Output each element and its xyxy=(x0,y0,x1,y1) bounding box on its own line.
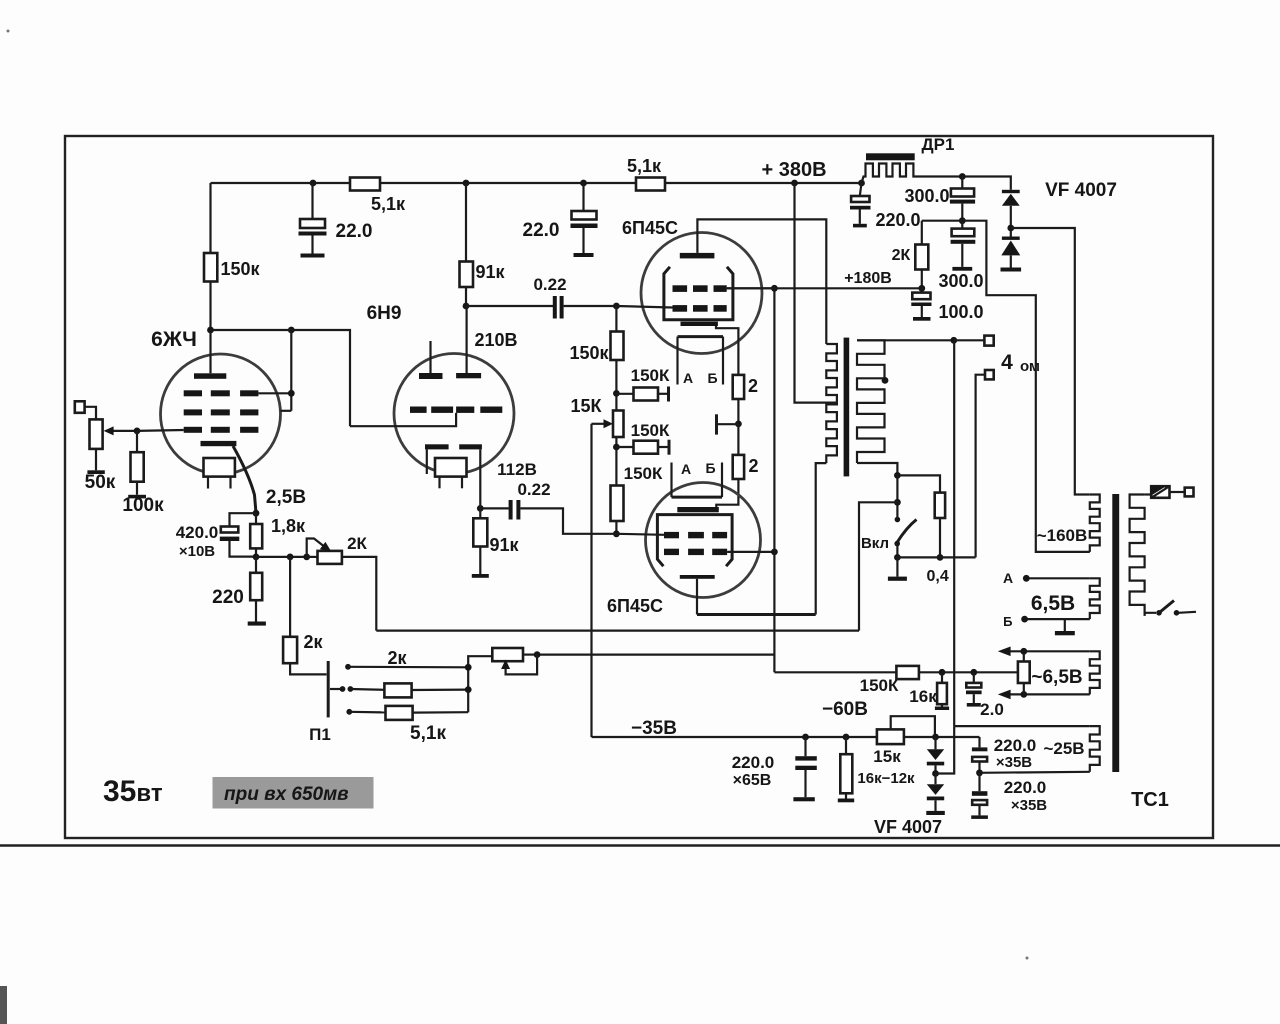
resistor 2k (vertical, feedback leg) xyxy=(289,557,291,637)
svg-text:−60В: −60В xyxy=(822,699,868,720)
svg-text:420.0: 420.0 xyxy=(176,523,219,542)
node 0.4 bottom xyxy=(937,554,944,561)
node 2.0 cap xyxy=(970,669,977,676)
wire B+ rail left segment xyxy=(211,182,351,184)
wire B+ rail middle segment xyxy=(380,182,636,184)
potentiometer 2k (feedback trimmer) xyxy=(492,648,523,661)
speaker terminal upper xyxy=(984,336,993,346)
diode VD2 VF4007 xyxy=(1002,237,1020,240)
capacitor 300.0 (second filter) xyxy=(961,221,963,229)
wiper of 2k trimmer xyxy=(307,539,326,557)
tube V3 cathode xyxy=(681,322,718,326)
svg-text:6ЖЧ: 6ЖЧ xyxy=(151,328,197,351)
wire bias winding top lead xyxy=(954,725,1090,727)
tube V4 control grid xyxy=(664,532,679,538)
capacitor 22.0 (second decoupling electrolytic) xyxy=(582,183,584,211)
resistor 150k (bias divider bottom) xyxy=(611,486,624,522)
wire 6N9 cathode to 0.22 cap 2 xyxy=(480,507,509,509)
transformer OPT core xyxy=(844,338,850,477)
svg-text:35вт: 35вт xyxy=(103,775,163,808)
wire anode lead xyxy=(209,330,211,373)
transformer TC1 primary winding xyxy=(1130,495,1145,616)
wire input to volume pot xyxy=(85,407,96,420)
svg-text:2.0: 2.0 xyxy=(980,700,1004,719)
wire 0.22 to lower grid node xyxy=(520,508,616,533)
svg-text:0.22: 0.22 xyxy=(517,480,550,499)
svg-text:2,5В: 2,5В xyxy=(266,487,306,508)
svg-text:220.0: 220.0 xyxy=(732,753,775,772)
svg-text:ТС1: ТС1 xyxy=(1131,789,1169,811)
node trimmer right xyxy=(534,651,541,658)
tube V3 control grid xyxy=(673,305,688,312)
transformer OPT primary winding xyxy=(826,344,837,463)
diode VD3 VF4007 xyxy=(934,737,936,749)
wire divider xyxy=(615,360,617,411)
node 16k fb xyxy=(939,669,946,676)
tube V1 cathode xyxy=(201,441,237,446)
switch P1 rotor xyxy=(327,661,330,717)
bias test terminal xyxy=(715,414,718,434)
svg-text:~6,5В: ~6,5В xyxy=(1031,667,1082,688)
wire V1 plate to V2 grid xyxy=(291,330,350,426)
transformer TC1 core xyxy=(1112,494,1119,772)
resistor 0.4 xyxy=(935,493,945,518)
node between diodes xyxy=(932,770,939,777)
node 6N9 plate / 210V xyxy=(463,303,470,310)
node cathodyne output xyxy=(477,505,484,512)
svg-text:112В: 112В xyxy=(497,460,537,479)
tube V2 6N9 envelope xyxy=(394,354,514,474)
node diode chain top xyxy=(932,734,939,741)
tube V2 grid row xyxy=(410,407,427,413)
terminal B xyxy=(1021,616,1028,623)
potentiometer wiper arrow into 15k from feedback line xyxy=(592,423,608,425)
border frame xyxy=(65,136,1213,838)
node switch output xyxy=(894,554,901,561)
node secondary tap xyxy=(882,377,889,384)
node screens feed lower xyxy=(771,549,778,556)
wire bias winding bottom lead xyxy=(980,772,1090,773)
wire screen feed vertical xyxy=(773,288,775,672)
svg-text:×35В: ×35В xyxy=(1011,797,1047,814)
svg-text:150к: 150к xyxy=(220,259,260,279)
potentiometer 50k volume xyxy=(90,419,103,449)
svg-text:300.0: 300.0 xyxy=(938,271,983,291)
resistor 220 xyxy=(255,557,257,573)
inductor DR1 winding xyxy=(862,164,920,184)
node pot bottom xyxy=(1020,691,1027,698)
svg-text:6,5В: 6,5В xyxy=(1031,592,1075,615)
wire V3 cathode lead xyxy=(716,326,738,375)
tube V2 heater xyxy=(435,458,467,477)
wire filter mid to 160V winding bottom xyxy=(962,221,1090,552)
wire grid A entry xyxy=(616,306,672,308)
wire -35V rail right xyxy=(904,736,980,738)
resistor 100k grid leak xyxy=(136,431,138,452)
wiper of feedback trimmer xyxy=(506,655,537,675)
capacitor 220.0 (PSU input) xyxy=(860,183,862,196)
speaker terminal lower xyxy=(985,370,994,379)
node screen junction xyxy=(288,390,295,397)
wire +180V xyxy=(727,287,922,289)
svg-text:91к: 91к xyxy=(475,262,505,282)
wire rail corner down to 150k xyxy=(209,183,211,253)
ground below switch xyxy=(896,557,898,576)
svg-text:~25В: ~25В xyxy=(1043,739,1084,758)
tube V3 anode xyxy=(680,253,715,259)
resistor 150k (bias divider top) xyxy=(611,332,624,361)
wire 91k to plate node xyxy=(465,287,467,306)
node 220/65V cap xyxy=(802,734,809,741)
capacitor 2.0 xyxy=(973,672,975,683)
wire primary top xyxy=(1145,493,1152,495)
svg-text:Б: Б xyxy=(707,370,717,386)
svg-text:ДР1: ДР1 xyxy=(922,135,955,154)
diode VD1 VF4007 xyxy=(1009,177,1012,190)
node pot top xyxy=(1020,648,1027,655)
terminal A xyxy=(1023,575,1030,582)
svg-text:220.0: 220.0 xyxy=(994,736,1037,755)
svg-text:22.0: 22.0 xyxy=(336,221,373,242)
node pot left xyxy=(303,554,310,561)
svg-text:15К: 15К xyxy=(570,396,602,416)
svg-text:5,1к: 5,1к xyxy=(371,194,406,214)
svg-text:100к: 100к xyxy=(122,495,164,516)
node P1 junction 2 xyxy=(465,686,472,693)
svg-text:6П45С: 6П45С xyxy=(607,596,663,616)
capacitor 420.0x10V bypass xyxy=(230,513,257,527)
wire 6.5V bottom lead xyxy=(1025,618,1090,620)
resistor 16k-12k xyxy=(845,737,847,754)
svg-text:22.0: 22.0 xyxy=(523,220,560,241)
tube V2 cathode left xyxy=(425,444,449,449)
transformer TC1 winding ~160V xyxy=(1090,495,1100,552)
svg-text:VF 4007: VF 4007 xyxy=(874,817,942,837)
resistor 16k feedback xyxy=(941,672,943,683)
svg-text:×10В: ×10В xyxy=(179,543,215,560)
tube V4 anode xyxy=(680,575,715,579)
wire bias feed vertical xyxy=(590,424,592,737)
resistor 5.1k (driver decoupling) xyxy=(636,178,665,191)
node junction rail/22.0 cap 2 xyxy=(580,180,587,187)
svg-text:0,4: 0,4 xyxy=(926,568,948,585)
wire to lower cathode xyxy=(716,479,738,507)
wire V2 grid jog xyxy=(350,413,456,426)
node P1 junction 1 xyxy=(465,664,472,671)
node junction rail/OPT center tap xyxy=(791,180,798,187)
resistor 15k (-35V dropper) xyxy=(877,729,904,744)
node P1 contact 3 xyxy=(346,709,352,715)
resistor 2k (P1 position 2) xyxy=(350,688,384,691)
wire V3 anode top-cap to OPT primary top xyxy=(697,219,826,344)
potentiometer hum balance xyxy=(1023,651,1025,661)
resistor 150k (grid leak A, horizontal) xyxy=(616,393,633,395)
diode VD4 VF4007 xyxy=(934,774,936,785)
wire V3 screen out xyxy=(727,287,775,289)
node to 2k lower xyxy=(287,554,294,561)
wire to terminal line xyxy=(897,556,975,558)
resistor 2 (lower cathode) xyxy=(737,424,739,455)
node +180V cap xyxy=(918,285,925,292)
wire speaker hot down to bias winding xyxy=(953,340,955,726)
ground on 6.5V lead xyxy=(1064,619,1066,631)
wire to 0.4 resistor xyxy=(897,475,940,492)
wire grid node down xyxy=(615,306,617,332)
wire g3 stub xyxy=(280,410,291,412)
input terminal xyxy=(75,401,85,413)
wire B+ rail to choke xyxy=(665,182,862,184)
tube V2 anode left xyxy=(419,373,443,379)
svg-text:150К: 150К xyxy=(860,676,899,695)
wire to switch xyxy=(896,475,898,519)
node filter mid xyxy=(959,217,966,224)
wire V1 cathode lead xyxy=(233,446,256,513)
svg-text:16к−12к: 16к−12к xyxy=(857,770,915,787)
svg-text:+ 380В: + 380В xyxy=(761,159,826,181)
wire cathode node right xyxy=(256,556,307,558)
wire rail after choke xyxy=(920,175,1011,177)
tube V4 beam plates xyxy=(657,515,732,567)
node screen feed junction xyxy=(288,327,295,334)
tube V1 6Zh4 envelope xyxy=(161,354,281,474)
svg-text:Б: Б xyxy=(705,460,715,476)
transformer TC1 winding ~6.5V xyxy=(1090,651,1100,694)
svg-text:16к: 16к xyxy=(909,687,937,706)
capacitor 22.0 (first decoupling electrolytic) xyxy=(311,183,313,219)
svg-text:2: 2 xyxy=(748,376,758,396)
tube V4 cathode xyxy=(677,507,719,512)
wire divider bottom xyxy=(615,521,617,534)
node P1 contact 1 xyxy=(345,664,351,670)
mains switch xyxy=(1145,613,1156,616)
svg-text:100.0: 100.0 xyxy=(938,302,983,322)
transformer TC1 winding 6.5V xyxy=(1090,578,1100,619)
node plate junction xyxy=(207,327,214,334)
wire diode tap to bias winding top xyxy=(936,726,955,773)
wire screen to dropper xyxy=(258,392,291,394)
tube V1 heater xyxy=(204,458,235,477)
svg-text:2К: 2К xyxy=(892,247,911,264)
resistor 150k (6Zh4 plate load) xyxy=(204,253,217,282)
resistor 91k (cathode load) xyxy=(479,508,481,518)
svg-text:15к: 15к xyxy=(873,747,901,766)
tube V1 screen grid xyxy=(184,390,202,396)
wire V4 anode lead xyxy=(696,579,698,615)
tube V3 beam plates xyxy=(664,267,733,320)
svg-text:1,8к: 1,8к xyxy=(271,516,306,536)
svg-text:−35В: −35В xyxy=(631,718,677,739)
svg-text:+180В: +180В xyxy=(844,270,892,287)
inductor DR1 core xyxy=(866,153,915,160)
tube V1 grid 2 row xyxy=(184,409,202,415)
node junction rail/22.0 cap xyxy=(310,180,317,187)
capacitor 220.0x35V lower xyxy=(978,773,980,791)
potentiometer 2k (cathode trimmer) xyxy=(307,556,318,558)
svg-text:220.0: 220.0 xyxy=(1004,778,1047,797)
wire 150k to plate node xyxy=(209,282,211,331)
mains terminal upper xyxy=(1185,488,1194,497)
wire secondary top lead xyxy=(857,339,954,341)
node cathode bias point xyxy=(735,421,742,428)
wire P1 pos1 direct xyxy=(348,666,468,669)
svg-text:×35В: ×35В xyxy=(996,754,1032,771)
wire divider xyxy=(615,437,617,486)
wire lower terminal down xyxy=(976,375,985,558)
svg-text:5,1к: 5,1к xyxy=(410,723,446,744)
tube V1 anode xyxy=(194,373,226,379)
node V1 cathode xyxy=(253,510,260,517)
svg-text:~160В: ~160В xyxy=(1037,526,1088,545)
node upper output grid xyxy=(613,303,620,310)
node divider tap B xyxy=(613,444,620,451)
resistor 2 (upper cathode) xyxy=(733,375,744,399)
wire P1 common vertical xyxy=(468,656,492,712)
transformer TC1 winding ~25V xyxy=(1090,726,1100,772)
svg-text:А: А xyxy=(681,461,691,477)
wire feedback line xyxy=(774,671,896,673)
node secondary return A xyxy=(894,472,901,479)
tube V3 screen grid xyxy=(673,285,688,292)
wiper arrow 50k xyxy=(112,430,137,432)
svg-text:ом: ом xyxy=(1020,358,1040,375)
wire feedback to hum pot xyxy=(919,671,1018,673)
wire ~6.5V top lead xyxy=(1010,650,1090,652)
resistor 2k PSU dropper xyxy=(921,221,923,245)
svg-text:Б: Б xyxy=(1003,614,1012,629)
svg-text:×65В: ×65В xyxy=(733,772,772,789)
node rectifier tap xyxy=(1007,225,1014,232)
wire anode-right to 91k xyxy=(466,306,468,373)
wire feedback line to switch node xyxy=(376,629,859,631)
svg-text:150к: 150к xyxy=(569,343,609,363)
node lower output grid xyxy=(613,530,620,537)
node junction rail/91k xyxy=(463,180,470,187)
wire secondary bottom lead xyxy=(857,463,897,475)
wire to 2k dropper xyxy=(922,220,963,222)
wire grid entry xyxy=(137,429,184,432)
node grid input xyxy=(134,428,141,435)
capacitor 100.0 xyxy=(921,288,923,292)
svg-text:2к: 2к xyxy=(303,632,323,652)
svg-text:6Н9: 6Н9 xyxy=(367,303,402,324)
tube V4 screen grid xyxy=(664,549,679,555)
transformer OPT secondary winding xyxy=(857,340,885,463)
resistor 91k (driver plate load) xyxy=(460,262,474,288)
wire 2k to P1 rotor xyxy=(290,663,326,674)
capacitor 220.0x35V upper xyxy=(978,737,980,747)
node between 35V caps xyxy=(976,769,983,776)
capacitor 0.22 (coupling to output grid A) xyxy=(553,296,557,319)
capacitor 300.0 (first filter) xyxy=(961,177,963,189)
node P1 contact 2 xyxy=(348,686,354,692)
node switch branch xyxy=(894,499,901,506)
svg-text:150К: 150К xyxy=(624,464,663,483)
wire rail down to 91k xyxy=(465,183,467,262)
resistor 1.8k cathode xyxy=(255,513,257,524)
switch P1 wiper arm xyxy=(330,688,343,690)
node junction rail/220.0 cap xyxy=(858,180,865,187)
svg-text:210В: 210В xyxy=(474,330,517,350)
tube V2 anode right xyxy=(456,373,481,378)
wire plate to 0.22 cap xyxy=(466,305,553,307)
node after choke xyxy=(959,173,966,180)
switch Vk1 xyxy=(895,517,901,523)
svg-text:150К: 150К xyxy=(631,421,670,440)
wire 0.22 to grid node xyxy=(564,305,617,307)
wire OPT center tap from B+ xyxy=(795,183,838,403)
svg-text:300.0: 300.0 xyxy=(904,186,949,206)
wire screen vertical xyxy=(290,330,292,411)
svg-text:6П45С: 6П45С xyxy=(622,218,678,238)
svg-text:50к: 50к xyxy=(85,472,116,493)
resistor 15k (bias divider middle) xyxy=(613,411,624,438)
svg-text:2: 2 xyxy=(748,456,758,476)
bottom rule line xyxy=(0,844,1280,847)
tube V2 cathode right xyxy=(459,444,482,449)
node divider tap A xyxy=(613,390,620,397)
wire anode-left stub xyxy=(429,341,431,373)
wire V4 screen out xyxy=(727,551,774,553)
wire V4 anode to OPT primary bottom xyxy=(697,613,816,616)
svg-text:Вкл: Вкл xyxy=(861,535,889,552)
svg-text:при вх 650мв: при вх 650мв xyxy=(224,784,349,805)
wire -35V rail xyxy=(592,736,877,738)
capacitor 220.0x65V xyxy=(804,737,806,756)
wire grid B entry xyxy=(616,534,664,535)
tube V3 heater xyxy=(678,335,724,338)
wire switch bottom xyxy=(896,544,898,558)
svg-text:А: А xyxy=(683,370,693,386)
tube V3 6P45S upper envelope xyxy=(641,233,762,354)
svg-text:150К: 150К xyxy=(631,366,670,385)
resistor 150k (grid leak B, horizontal) xyxy=(616,446,633,448)
svg-text:0.22: 0.22 xyxy=(533,275,566,294)
wire ~6.5V bottom lead xyxy=(1010,693,1090,695)
node speaker hot xyxy=(950,337,957,344)
svg-text:2К: 2К xyxy=(347,534,367,553)
wire rectifier to 160V winding top xyxy=(1011,228,1090,495)
svg-text:2к: 2к xyxy=(387,648,407,668)
node 16k-12k xyxy=(843,734,850,741)
svg-text:А: А xyxy=(1003,570,1013,586)
svg-text:VF 4007: VF 4007 xyxy=(1045,180,1117,201)
wire switch node to bias line xyxy=(859,502,897,630)
svg-text:91к: 91к xyxy=(489,535,519,555)
svg-text:4: 4 xyxy=(1001,351,1013,374)
wire 6.5V top lead xyxy=(1026,577,1090,579)
wire plate node to screen vertical xyxy=(211,329,291,331)
resistor 5.1k (first stage decoupling) xyxy=(350,178,380,191)
svg-text:220: 220 xyxy=(212,587,244,608)
tube V4 6P45S lower envelope xyxy=(646,483,761,598)
node screens feed upper xyxy=(771,285,778,292)
wire trimmer to screen line xyxy=(537,653,774,655)
fuse xyxy=(1151,486,1169,498)
tube V1 control grid xyxy=(184,427,202,433)
resistor 150k feedback xyxy=(896,666,919,679)
wire to speaker terminal xyxy=(954,339,985,341)
svg-text:5,1к: 5,1к xyxy=(627,156,662,176)
note box (at 650mV input) xyxy=(213,777,374,809)
node cathode bottom xyxy=(253,554,260,561)
resistor 5.1k (P1 position 3) xyxy=(349,711,385,714)
svg-text:220.0: 220.0 xyxy=(875,210,920,230)
wire to bias point xyxy=(737,399,739,424)
capacitor 0.22 (coupling to output grid B) xyxy=(509,500,513,520)
svg-text:П1: П1 xyxy=(309,725,331,744)
tube V4 heater xyxy=(672,496,723,499)
wire -60V jog xyxy=(891,716,935,734)
